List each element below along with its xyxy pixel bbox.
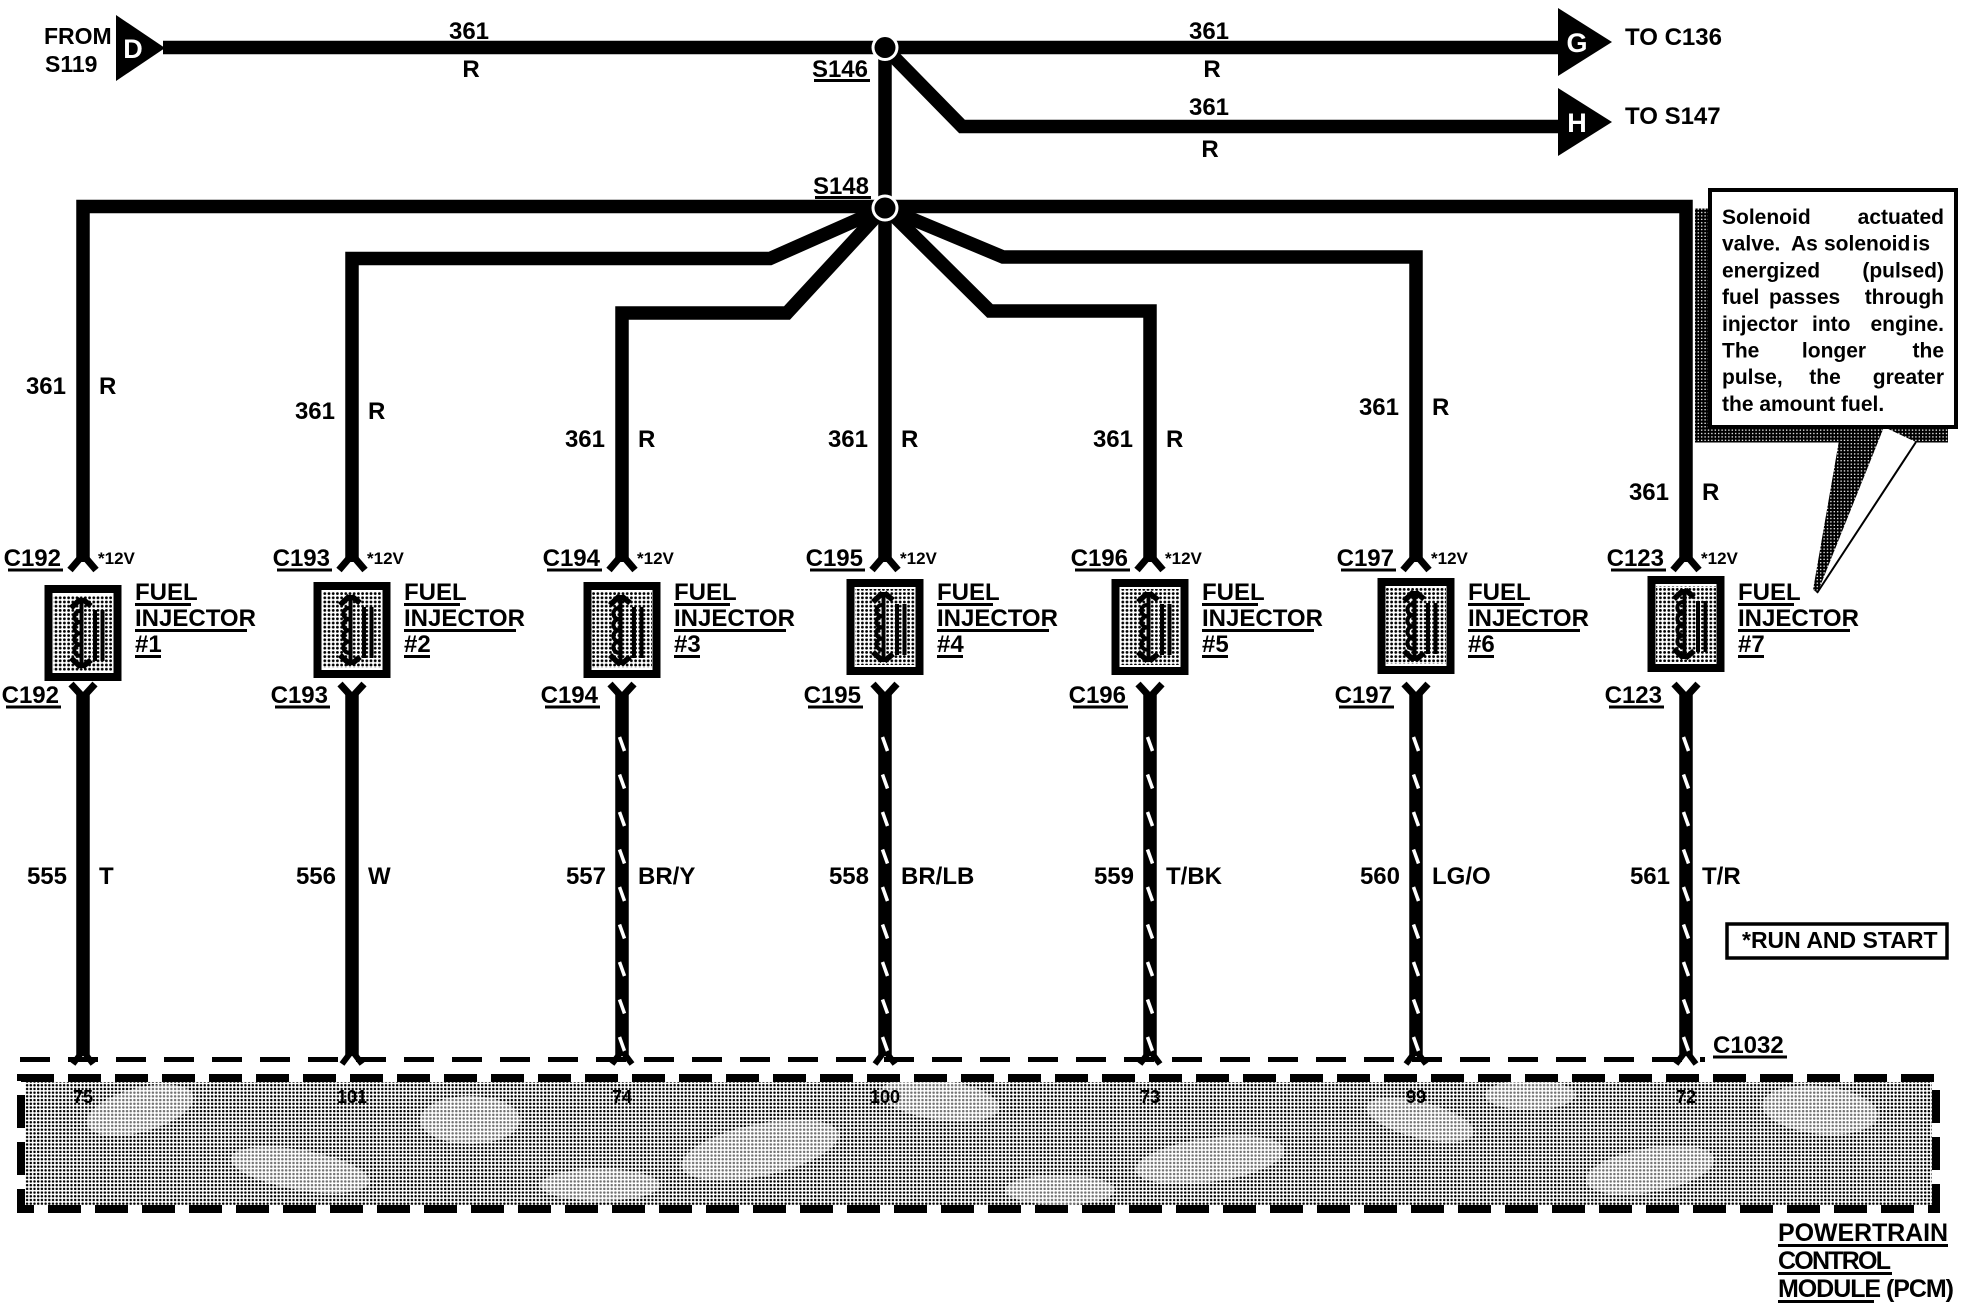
label FUEL INJECTOR #6 [1468,579,1589,658]
svg-text:557: 557 [566,863,606,890]
label 361 R (injector #5 feed) [1093,426,1183,453]
svg-text:T/R: T/R [1702,863,1741,890]
svg-text:C195: C195 [806,545,863,572]
callout shadow [1695,209,1948,443]
svg-text:R: R [1702,479,1719,506]
label 361 R (injector #1 feed) [26,373,116,400]
connector C194 (bottom) [541,682,634,709]
svg-text:#5: #5 [1202,631,1229,658]
connector C194 (top) [543,545,635,572]
wire 561 T/R to PCM [1676,692,1696,1064]
wire 555 T to PCM [73,692,93,1064]
svg-text:the: the [1809,366,1841,389]
wire 557 BR/Y to PCM [612,692,632,1064]
svg-text:INJECTOR: INJECTOR [404,605,525,632]
pin 74 [612,1087,632,1107]
svg-text:*RUN AND START: *RUN AND START [1742,927,1938,953]
label C1032 [1713,1032,1787,1059]
svg-text:74: 74 [612,1087,632,1107]
svg-text:FUEL: FUEL [1468,579,1531,606]
svg-text:R: R [638,426,655,453]
svg-text:FUEL: FUEL [1738,579,1801,606]
svg-text:T/BK: T/BK [1166,863,1223,890]
svg-text:FUEL: FUEL [404,579,467,606]
svg-text:561: 561 [1630,863,1670,890]
svg-text:TO S147: TO S147 [1625,103,1721,130]
callout pointer (stippled wedge) [1813,429,1884,593]
svg-text:*12V: *12V [1165,549,1203,568]
label 361 R (injector #3 feed) [565,426,655,453]
callout pointer (white tail) [1817,427,1918,594]
svg-text:C123: C123 [1607,545,1664,572]
svg-text:75: 75 [73,1087,93,1107]
label FUEL INJECTOR #1 [135,579,256,658]
wire 558 BR/LB to PCM [875,692,895,1064]
svg-text:#7: #7 [1738,631,1765,658]
svg-text:R: R [901,426,918,453]
connector arrow G to C136 [1558,8,1612,76]
svg-text:C196: C196 [1071,545,1128,572]
svg-text:INJECTOR: INJECTOR [1738,605,1859,632]
fuel injector #1 (solenoid) [49,589,118,677]
pin 72 [1676,1087,1696,1107]
label *12V [1165,549,1203,568]
label 559 T/BK [1094,863,1223,890]
svg-text:FUEL: FUEL [674,579,737,606]
wire 559 T/BK to PCM [1140,692,1160,1064]
svg-text:The: The [1722,340,1759,363]
fuel injector #2 (solenoid) [318,586,387,674]
wire 560 LG/O to PCM [1406,692,1426,1064]
connector C196 (top) [1071,545,1163,572]
fuel injector #7 (solenoid) [1652,580,1721,668]
svg-text:INJECTOR: INJECTOR [135,605,256,632]
node S146 [812,34,899,83]
label *12V [1431,549,1469,568]
svg-text:C192: C192 [2,682,59,709]
label *12V [1701,549,1739,568]
svg-text:INJECTOR: INJECTOR [1202,605,1323,632]
svg-text:#3: #3 [674,631,701,658]
svg-text:558: 558 [829,863,869,890]
wire [887,50,1560,127]
svg-text:solenoid: solenoid [1824,233,1910,256]
svg-text:R: R [368,398,385,425]
svg-text:#4: #4 [937,631,964,658]
label 361 R (injector #7 feed) [1629,479,1719,506]
svg-text:S146: S146 [812,56,868,83]
node S148 [813,173,899,222]
svg-text:72: 72 [1676,1087,1696,1107]
wire to injector 6 [886,208,1416,562]
svg-text:CONTROL: CONTROL [1778,1247,1891,1275]
svg-text:(pulsed): (pulsed) [1862,259,1944,282]
svg-text:*12V: *12V [1701,549,1739,568]
svg-text:361: 361 [828,426,868,453]
wire main bus S148 to injectors 1 and 7 [83,207,1686,563]
svg-text:100: 100 [870,1087,900,1107]
svg-text:#1: #1 [135,631,162,658]
wire 556 W to PCM [342,692,362,1064]
label *12V [367,549,405,568]
svg-text:73: 73 [1140,1087,1160,1107]
svg-text:C192: C192 [4,545,61,572]
svg-text:W: W [368,863,391,890]
svg-text:the amount fuel.: the amount fuel. [1722,393,1884,416]
svg-text:C197: C197 [1335,682,1392,709]
label POWERTRAIN CONTROL MODULE (PCM) [1778,1219,1954,1303]
svg-text:TO C136: TO C136 [1625,24,1722,51]
svg-text:C194: C194 [541,682,599,709]
svg-text:555: 555 [27,863,67,890]
label TO S147 [1625,103,1721,130]
svg-text:R: R [1166,426,1183,453]
svg-text:INJECTOR: INJECTOR [937,605,1058,632]
svg-text:FUEL: FUEL [135,579,198,606]
svg-text:R: R [462,56,479,83]
svg-text:#2: #2 [404,631,431,658]
label FUEL INJECTOR #7 [1738,579,1859,658]
label 561 T/R [1630,863,1741,890]
svg-text:R: R [1432,394,1449,421]
svg-text:greater: greater [1873,366,1944,389]
svg-text:INJECTOR: INJECTOR [674,605,795,632]
label *12V [98,549,136,568]
svg-text:energized: energized [1722,259,1820,282]
connector C192 (top) [4,545,96,572]
fuel injector #5 (solenoid) [1116,583,1185,671]
label 555 T [27,863,114,890]
svg-text:As: As [1791,233,1818,256]
connector C197 (bottom) [1335,682,1428,709]
svg-text:valve.: valve. [1722,233,1780,256]
svg-text:559: 559 [1094,863,1134,890]
svg-text:C1032: C1032 [1713,1032,1784,1059]
svg-text:engine.: engine. [1870,313,1944,336]
svg-text:T: T [99,863,114,890]
svg-text:is: is [1912,233,1930,256]
wire [163,41,1560,55]
svg-text:361: 361 [1359,394,1399,421]
label 560 LG/O [1360,863,1491,890]
svg-text:INJECTOR: INJECTOR [1468,605,1589,632]
svg-text:C196: C196 [1069,682,1126,709]
connector C193 (top) [273,545,365,572]
connector C195 (top) [806,545,898,572]
svg-text:101: 101 [337,1087,367,1107]
label 361 R (left of S146) [449,18,489,83]
connector C196 (bottom) [1069,682,1162,709]
connector C195 (bottom) [804,682,897,709]
label 558 BR/LB [829,863,974,890]
svg-text:*12V: *12V [900,549,938,568]
svg-text:361: 361 [1093,426,1133,453]
svg-text:*12V: *12V [367,549,405,568]
connector line C1032 (dashed) [20,1057,1705,1062]
svg-text:*12V: *12V [98,549,136,568]
svg-text:S119: S119 [45,51,97,77]
wire to injector 2 [352,208,884,562]
connector C193 (bottom) [271,682,364,709]
label FROM S119 [44,23,112,77]
label *12V [637,549,675,568]
svg-text:BR/LB: BR/LB [901,863,974,890]
svg-text:passes: passes [1769,286,1840,309]
svg-text:MODULE (PCM): MODULE (PCM) [1778,1275,1954,1303]
connector C192 (bottom) [2,682,95,709]
label 361 R (injector #4 feed) [828,426,918,453]
svg-text:H: H [1567,108,1587,138]
svg-text:R: R [1203,56,1220,83]
label *12V [900,549,938,568]
svg-text:into: into [1812,313,1850,336]
svg-text:through: through [1865,286,1944,309]
svg-text:99: 99 [1406,1087,1426,1107]
svg-text:C194: C194 [543,545,601,572]
svg-text:the: the [1913,340,1945,363]
svg-text:*12V: *12V [637,549,675,568]
svg-text:#6: #6 [1468,631,1495,658]
svg-text:FUEL: FUEL [937,579,1000,606]
svg-text:Solenoid: Solenoid [1722,206,1811,229]
fuel injector #6 (solenoid) [1382,582,1451,670]
note *RUN AND START [1727,924,1947,958]
svg-text:injector: injector [1722,313,1798,336]
svg-text:D: D [123,34,143,64]
connector arrow H to S147 [1558,88,1612,156]
svg-text:361: 361 [565,426,605,453]
label 361 R (injector #6 feed) [1359,394,1449,421]
svg-text:R: R [1201,136,1218,163]
svg-text:361: 361 [26,373,66,400]
fuel injector #3 (solenoid) [588,586,657,674]
pin 100 [870,1087,900,1107]
svg-text:361: 361 [1189,94,1229,121]
label TO C136 [1625,24,1722,51]
svg-text:361: 361 [1189,18,1229,45]
label 361 R (right of S146) [1189,18,1229,83]
label 361 R (to S147) [1189,94,1229,163]
svg-text:pulse,: pulse, [1722,366,1783,389]
connector C123 (top) [1607,545,1699,572]
svg-text:S148: S148 [813,173,869,200]
label 361 R (injector #2 feed) [295,398,385,425]
svg-text:FROM: FROM [44,23,112,49]
wire to injector 5 [886,208,1150,562]
pin 73 [1140,1087,1160,1107]
label FUEL INJECTOR #5 [1202,579,1323,658]
svg-text:G: G [1566,28,1587,58]
svg-text:FUEL: FUEL [1202,579,1265,606]
svg-text:361: 361 [1629,479,1669,506]
wire [878,48,892,209]
label 556 W [296,863,391,890]
wire to injector 3 [622,208,884,562]
svg-text:C193: C193 [273,545,330,572]
label FUEL INJECTOR #4 [937,579,1058,658]
svg-text:POWERTRAIN: POWERTRAIN [1778,1219,1948,1247]
connector C123 (bottom) [1605,682,1698,709]
svg-text:BR/Y: BR/Y [638,863,695,890]
svg-text:fuel: fuel [1722,286,1759,309]
svg-text:longer: longer [1802,340,1866,363]
svg-text:C195: C195 [804,682,861,709]
svg-text:560: 560 [1360,863,1400,890]
pin 101 [337,1087,367,1107]
svg-text:C123: C123 [1605,682,1662,709]
pin 99 [1406,1087,1426,1107]
pin 75 [73,1087,93,1107]
label 557 BR/Y [566,863,695,890]
svg-text:361: 361 [449,18,489,45]
connector arrow D from S119 [116,15,165,81]
fuel injector #4 (solenoid) [851,583,920,671]
svg-text:*12V: *12V [1431,549,1469,568]
callout note box [1710,190,1956,427]
svg-text:C197: C197 [1337,545,1394,572]
svg-text:C193: C193 [271,682,328,709]
svg-text:R: R [99,373,116,400]
wire to injector 4 [878,208,892,562]
svg-text:361: 361 [295,398,335,425]
label FUEL INJECTOR #3 [674,579,795,658]
label FUEL INJECTOR #2 [404,579,525,658]
connector C197 (top) [1337,545,1429,572]
svg-text:actuated: actuated [1858,206,1944,229]
svg-text:556: 556 [296,863,336,890]
powertrain control module box (dashed) [21,1072,1936,1209]
svg-text:LG/O: LG/O [1432,863,1491,890]
